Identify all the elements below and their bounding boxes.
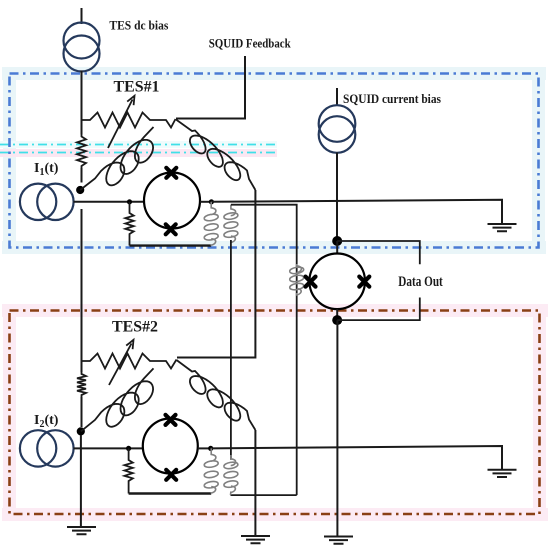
SQUID data-out ring — [309, 253, 365, 309]
wire output to ground (top right) — [211, 200, 502, 224]
wire series link TES#1 coil to TES#2 junction — [177, 190, 255, 358]
svg-text:TES dc bias: TES dc bias — [109, 18, 168, 33]
arrow across TES#1 — [108, 100, 133, 149]
node dot data-out top — [332, 236, 342, 246]
ground bottom mid-left — [241, 536, 270, 543]
highlight band around blue box — [2, 67, 546, 80]
wire summing loop vertical link — [230, 240, 232, 460]
shunt resistor TES#2 — [124, 448, 132, 493]
inductor input coil TES#1 (left) — [80, 127, 153, 190]
inductor feedback coil TES#2 (right) — [177, 360, 256, 430]
wire top lead into TES dc bias source — [81, 8, 83, 24]
Josephson junction X bottom SQUID#1 — [166, 224, 176, 234]
ground right — [488, 470, 517, 477]
shunt resistor TES#1 — [125, 202, 133, 246]
Josephson junction X right data-out — [359, 277, 369, 287]
cyan guide line 1 — [0, 144, 277, 146]
wire TES#2 coil to bottom ground — [254, 430, 256, 536]
svg-text:SQUID current bias: SQUID current bias — [343, 91, 441, 106]
wire bus resistor to node TES#2 — [81, 397, 83, 427]
wire bus to input node — [81, 168, 83, 183]
svg-text:TES#1: TES#1 — [114, 79, 160, 96]
variable resistor TES#1 — [82, 113, 176, 128]
node TES#2 input junction — [77, 427, 85, 435]
red dash-dot box TES#2 cell — [10, 311, 540, 515]
Josephson junction X bottom SQUID#2 — [166, 470, 176, 480]
inductor feedback coil TES#1 (right) — [176, 120, 255, 191]
svg-text:TES#2: TES#2 — [112, 319, 158, 336]
wire node to data-out ring — [336, 241, 338, 254]
coil secondary (gray) TES#1 — [224, 205, 238, 243]
ground bottom center — [324, 537, 353, 544]
SQUID #1 ring — [144, 173, 200, 229]
wire data-out port top — [337, 241, 420, 264]
wire SQUID#2 right output — [198, 447, 211, 449]
wire data-out to bottom ground — [336, 320, 338, 536]
junction dot right of SQUID#1 — [209, 199, 214, 204]
wire SQUID feedback down to TES#1 — [176, 56, 245, 119]
wire data-out port bottom — [337, 298, 420, 321]
junction dot right of SQUID#2 — [208, 446, 213, 451]
wire summing loop top link — [231, 205, 297, 495]
highlight band cyan guides — [0, 141, 277, 148]
wire I1 to SQUID#1 — [74, 201, 145, 203]
blue dash-dot box TES#1 cell — [10, 74, 539, 248]
arrow across TES#2 — [109, 344, 132, 386]
coil secondary (gray) TES#2 — [224, 455, 238, 495]
wire I2 to SQUID#2 — [74, 447, 144, 449]
resistor bias R2 vertical — [77, 372, 86, 397]
variable resistor TES#2 — [82, 354, 177, 369]
junction dot left of SQUID#2 — [126, 446, 131, 451]
coil primary (gray) TES#1 — [204, 202, 218, 246]
wire lead into SQUID current bias — [336, 88, 338, 106]
highlight band around red box — [2, 304, 548, 317]
ground bottom left — [67, 527, 96, 534]
wire shunt bottom TES#1 — [130, 244, 212, 246]
wire shunt bottom TES#2 — [129, 492, 212, 494]
current source I2 — [20, 430, 56, 466]
current source SQUID current bias — [319, 105, 356, 142]
wire bias to data-out SQUID — [336, 153, 338, 242]
junction dot left of SQUID#1 — [127, 199, 132, 204]
cyan guide line 2 — [0, 152, 277, 154]
current source TES dc bias — [64, 23, 100, 59]
svg-text:SQUID Feedback: SQUID Feedback — [209, 36, 292, 51]
current source I1 — [20, 184, 56, 220]
wire data-out ring to bottom node — [336, 309, 338, 320]
inductor data-out input coil — [290, 264, 304, 295]
Josephson junction X top SQUID#2 — [166, 415, 176, 425]
wire left bus between cells — [81, 209, 83, 372]
ground top right — [488, 224, 517, 231]
wire SQUID#1 right output — [200, 201, 211, 203]
resistor bias R1 vertical — [77, 135, 86, 169]
node dot data-out bottom — [332, 315, 342, 325]
svg-text:I2(t): I2(t) — [34, 413, 59, 430]
coil primary (gray) TES#2 — [204, 448, 218, 493]
wire output SQUID#2 to right ground — [211, 446, 502, 470]
wire left bus from source to resistor — [81, 71, 83, 135]
Josephson junction X top SQUID#1 — [166, 168, 176, 178]
node TES#1 input junction — [76, 186, 84, 194]
wire bus node to bottom ground — [80, 435, 82, 527]
SQUID #2 ring — [143, 419, 198, 474]
svg-text:I1(t): I1(t) — [34, 161, 59, 178]
Josephson junction X left data-out — [306, 277, 316, 287]
inductor input coil TES#2 (left) — [81, 368, 154, 431]
svg-text:Data Out: Data Out — [398, 274, 443, 290]
wire data-out coil down and to TES#2 secondary — [231, 494, 297, 496]
